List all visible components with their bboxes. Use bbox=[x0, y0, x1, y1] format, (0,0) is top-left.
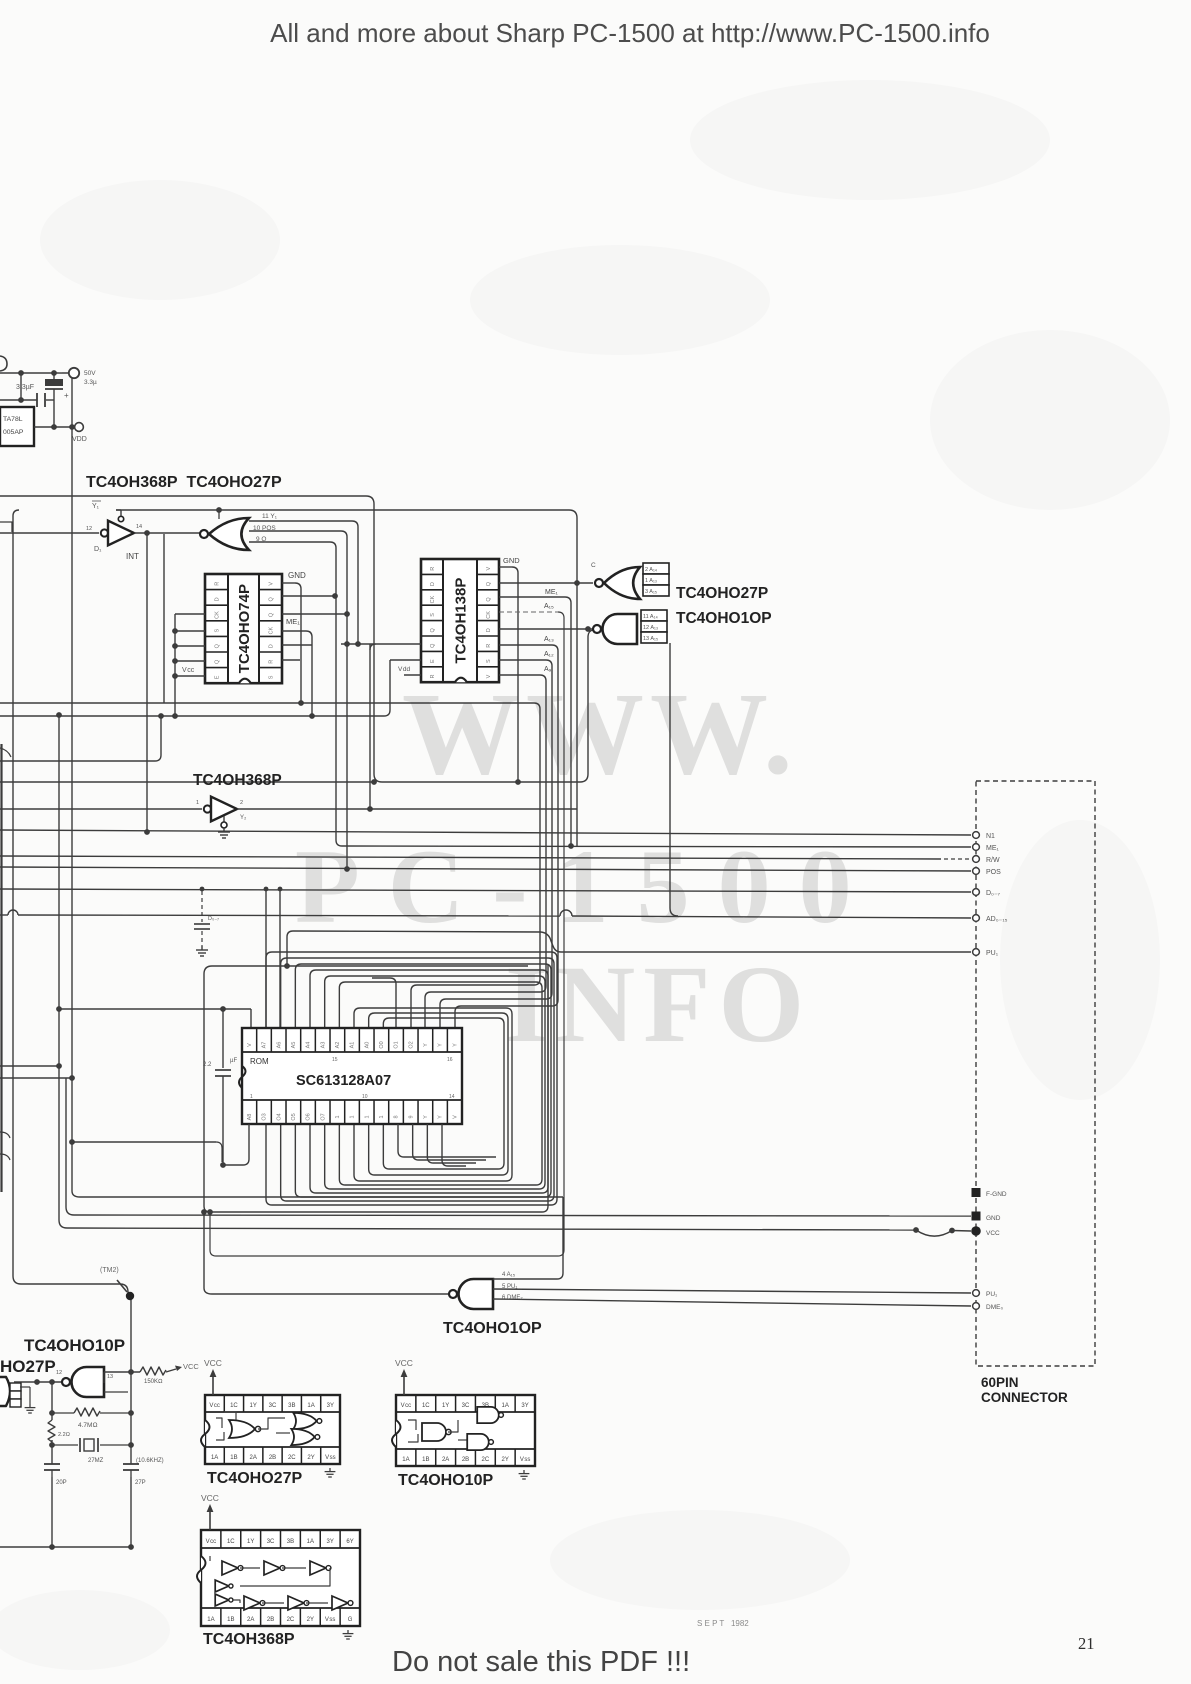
svg-text:2C: 2C bbox=[482, 1457, 490, 1463]
svg-text:−: − bbox=[58, 370, 62, 377]
svg-text:Q: Q bbox=[430, 643, 436, 648]
svg-text:R: R bbox=[215, 582, 221, 586]
bus line ME1 bbox=[342, 846, 971, 847]
wire net-510 bbox=[116, 509, 121, 511]
svg-text:5 PU₁: 5 PU₁ bbox=[502, 1284, 517, 1290]
wire NAND2 feed bbox=[201, 1209, 207, 1215]
resistor R3 2.2 bbox=[48, 1420, 55, 1442]
nand gate U11 TC4OHO10P osc bbox=[72, 1367, 105, 1397]
wire NOR1 out POS bbox=[249, 530, 341, 532]
wire U9 out DME bbox=[493, 1299, 971, 1306]
svg-text:All and more about Sharp PC-15: All and more about Sharp PC-1500 at http… bbox=[270, 18, 990, 48]
svg-text:S: S bbox=[486, 659, 492, 663]
wire U9 out PU1 bbox=[493, 1289, 971, 1293]
svg-text:TC4OH368P: TC4OH368P bbox=[203, 1631, 295, 1648]
svg-text:INT: INT bbox=[126, 552, 139, 561]
svg-text:A8: A8 bbox=[247, 1114, 253, 1121]
wire vertical x66 gnd feed bbox=[65, 1078, 67, 1207]
svg-text:A₁₃: A₁₃ bbox=[544, 636, 554, 643]
svg-text:16: 16 bbox=[447, 1057, 453, 1063]
bus line PU1 bbox=[287, 931, 293, 937]
wire U3 pin right4 bbox=[282, 630, 306, 632]
svg-text:GND: GND bbox=[288, 571, 306, 580]
svg-text:TC4OHO1OP: TC4OHO1OP bbox=[443, 1320, 542, 1337]
svg-text:4 A₁₅: 4 A₁₅ bbox=[502, 1272, 516, 1278]
capacitor C4 27pF bbox=[123, 1463, 139, 1465]
wire NOR1 out Y1 bbox=[249, 520, 352, 522]
ic U3 TC4OHO74P bbox=[205, 574, 282, 683]
pinout IC TC4OHO10P bbox=[396, 1395, 535, 1466]
svg-text:TC4OHO27P: TC4OHO27P bbox=[676, 585, 768, 602]
ground U7 bbox=[223, 816, 225, 822]
svg-text:2Y: 2Y bbox=[502, 1457, 509, 1463]
svg-text:12 A₁₃: 12 A₁₃ bbox=[643, 625, 658, 631]
svg-text:A3: A3 bbox=[320, 1042, 326, 1049]
svg-text:HO27P: HO27P bbox=[0, 1357, 56, 1376]
wire U4 left pin 675 bbox=[404, 674, 421, 676]
svg-text:8: 8 bbox=[394, 1115, 400, 1118]
svg-text:27P: 27P bbox=[135, 1480, 146, 1486]
wire ROM pin12 feed bbox=[411, 709, 540, 1028]
svg-text:D: D bbox=[215, 597, 221, 601]
svg-text:2A: 2A bbox=[442, 1457, 449, 1463]
svg-text:C: C bbox=[591, 562, 596, 569]
svg-text:O3: O3 bbox=[262, 1113, 268, 1120]
svg-text:Y: Y bbox=[438, 1115, 444, 1119]
svg-text:N1: N1 bbox=[986, 833, 995, 840]
svg-text:V: V bbox=[486, 567, 492, 571]
svg-text:11 A₁₄: 11 A₁₄ bbox=[643, 614, 658, 620]
svg-text:S: S bbox=[430, 613, 436, 617]
svg-text:D₀₋₇: D₀₋₇ bbox=[986, 890, 1001, 897]
connector J1 VCC bbox=[971, 1226, 981, 1236]
wire ROM outer band bbox=[204, 966, 528, 1206]
gate U5 input boxes bbox=[643, 563, 669, 596]
svg-text:TC4OHO10P: TC4OHO10P bbox=[398, 1472, 493, 1489]
svg-text:2Y: 2Y bbox=[307, 1455, 314, 1461]
wire U4 left pin 660 bbox=[390, 659, 421, 661]
svg-text:V cc: V cc bbox=[206, 1539, 217, 1545]
svg-text:1B: 1B bbox=[227, 1617, 234, 1623]
svg-text:TC4OHO27P: TC4OHO27P bbox=[207, 1470, 302, 1487]
terminal VDD bbox=[75, 423, 84, 432]
svg-text:005AP: 005AP bbox=[3, 429, 24, 436]
svg-text:50V: 50V bbox=[84, 370, 96, 377]
svg-text:A4: A4 bbox=[306, 1042, 312, 1049]
crystal X1 bbox=[52, 1444, 78, 1446]
svg-text:CK: CK bbox=[430, 595, 436, 603]
svg-text:3.3µ: 3.3µ bbox=[84, 379, 97, 386]
svg-text:2: 2 bbox=[240, 800, 243, 806]
svg-text:V cc: V cc bbox=[401, 1403, 412, 1409]
svg-text:CK: CK bbox=[269, 626, 275, 634]
svg-text:12: 12 bbox=[56, 1370, 62, 1376]
svg-text:VDD: VDD bbox=[72, 436, 87, 443]
svg-text:CONNECTOR: CONNECTOR bbox=[981, 1390, 1068, 1405]
capacitor C-in 3.3uF bbox=[36, 393, 38, 407]
wire vertical x59 bbox=[58, 715, 60, 1220]
svg-text:V: V bbox=[452, 1115, 458, 1119]
wire net-716 bbox=[0, 715, 384, 717]
svg-text:3Y: 3Y bbox=[327, 1403, 334, 1409]
wire net-1009 bbox=[59, 1008, 251, 1010]
bus line D0-7 bbox=[0, 889, 971, 892]
wire ROM pin2-3 risers bbox=[265, 889, 267, 1028]
svg-text:D₀₋₇: D₀₋₇ bbox=[208, 916, 219, 922]
nor gate U2 TC4OHO27P bbox=[209, 518, 249, 550]
connector J1 60PIN box bbox=[976, 781, 1095, 1366]
svg-text:1C: 1C bbox=[227, 1539, 235, 1545]
svg-text:14: 14 bbox=[449, 1094, 455, 1100]
svg-text:V: V bbox=[269, 582, 275, 586]
svg-text:D: D bbox=[430, 582, 436, 586]
svg-text:TA78L: TA78L bbox=[3, 416, 23, 423]
svg-text:2Y: 2Y bbox=[307, 1617, 314, 1623]
svg-text:A1: A1 bbox=[350, 1042, 356, 1049]
wire U4 A13 out bbox=[499, 644, 552, 646]
svg-text:3C: 3C bbox=[462, 1403, 470, 1409]
svg-text:A7: A7 bbox=[262, 1042, 268, 1049]
connector J1 DME term bbox=[973, 1303, 980, 1310]
wire U3 pin right3 bbox=[282, 613, 347, 615]
svg-text:PU₁: PU₁ bbox=[986, 1291, 998, 1298]
svg-text:1Y: 1Y bbox=[247, 1539, 254, 1545]
svg-text:2C: 2C bbox=[288, 1455, 296, 1461]
wire vertical x370 bbox=[369, 644, 371, 809]
svg-text:13 A₁₅: 13 A₁₅ bbox=[643, 636, 658, 642]
wire net-1147 bbox=[72, 1141, 216, 1143]
svg-text:A5: A5 bbox=[291, 1042, 297, 1049]
connector J1 signal terminals bbox=[973, 832, 980, 839]
wire left edge stubs bbox=[0, 1132, 10, 1138]
svg-text:Y: Y bbox=[423, 1115, 429, 1119]
svg-text:(TM2): (TM2) bbox=[100, 1267, 119, 1274]
svg-text:V ss: V ss bbox=[325, 1617, 336, 1623]
svg-text:V ss: V ss bbox=[325, 1455, 336, 1461]
resistor R2 4.7M bbox=[52, 1412, 74, 1414]
svg-text:21: 21 bbox=[1078, 1634, 1095, 1653]
svg-text:F-GND: F-GND bbox=[986, 1191, 1007, 1198]
svg-text:1: 1 bbox=[364, 1115, 370, 1118]
wire vertical x52 osc bbox=[51, 1382, 53, 1420]
wire vertical x72 from 30V terminal bbox=[71, 378, 73, 1191]
svg-text:A₁₅: A₁₅ bbox=[544, 603, 554, 610]
watermark www.PC-1500.info bbox=[295, 668, 880, 1065]
wire net-1197 bbox=[72, 1191, 80, 1197]
svg-text:D₁: D₁ bbox=[94, 546, 102, 553]
svg-text:Y₁: Y₁ bbox=[92, 503, 100, 510]
wire NOR1 out Q bbox=[249, 541, 330, 543]
svg-text:3Y: 3Y bbox=[327, 1539, 334, 1545]
svg-text:Y: Y bbox=[423, 1043, 429, 1047]
svg-text:TC4OHO1OP: TC4OHO1OP bbox=[676, 610, 772, 627]
wire inverter2 out bbox=[237, 808, 577, 810]
svg-text:10: 10 bbox=[362, 1094, 368, 1100]
svg-text:R: R bbox=[486, 644, 492, 648]
svg-text:µF: µF bbox=[230, 1058, 237, 1064]
wire U4 A15 out bbox=[499, 611, 558, 613]
pinout IC TC4OH368P bbox=[201, 1530, 360, 1626]
svg-text:15: 15 bbox=[332, 1057, 338, 1063]
wire cap rail bbox=[0, 399, 37, 401]
svg-text:9 Q: 9 Q bbox=[256, 536, 266, 543]
ic U8 ROM SC613128A07 bbox=[242, 1028, 462, 1124]
svg-text:O7: O7 bbox=[320, 1113, 326, 1120]
wire U3 left stubs bbox=[175, 613, 205, 615]
svg-text:13: 13 bbox=[107, 1374, 113, 1380]
wire NOR1 top input bbox=[218, 510, 220, 519]
svg-text:1Y: 1Y bbox=[250, 1403, 257, 1409]
svg-text:1: 1 bbox=[250, 1094, 253, 1100]
wire ROM bottom pin stubs bbox=[398, 1124, 496, 1157]
svg-text:R/W: R/W bbox=[986, 857, 1000, 864]
svg-text:2.2Ω: 2.2Ω bbox=[58, 1432, 70, 1438]
svg-text:S: S bbox=[215, 628, 221, 632]
wire U9 out A15 bbox=[493, 1278, 557, 1280]
svg-text:2 A₁₄: 2 A₁₄ bbox=[645, 567, 658, 573]
svg-text:1B: 1B bbox=[422, 1457, 429, 1463]
regulator U-reg TA78L05AP bbox=[0, 407, 34, 446]
wire vertical x13 bbox=[13, 510, 128, 1297]
svg-text:PU₁: PU₁ bbox=[986, 950, 999, 957]
nand gate U9 TC4OHO10P bbox=[459, 1279, 494, 1309]
wire U10 gnd branch bbox=[20, 1386, 30, 1388]
svg-text:POS: POS bbox=[986, 869, 1001, 876]
svg-text:Q: Q bbox=[430, 627, 436, 632]
wire page-edge cut box bbox=[0, 744, 2, 1192]
connector J1 GND bbox=[972, 1212, 981, 1221]
svg-text:ME₁: ME₁ bbox=[286, 617, 300, 626]
svg-text:12: 12 bbox=[86, 526, 92, 532]
wire net-1066 bbox=[0, 1065, 59, 1067]
svg-text:S: S bbox=[269, 675, 275, 679]
connector J1 PU1 term bbox=[973, 1290, 980, 1297]
wire U11 out bbox=[104, 1371, 140, 1373]
or gate U10 partial at page edge bbox=[0, 1377, 10, 1406]
svg-text:Q: Q bbox=[486, 597, 492, 602]
svg-text:2A: 2A bbox=[250, 1455, 257, 1461]
svg-text:D: D bbox=[269, 644, 275, 648]
svg-text:V dd: V dd bbox=[398, 666, 410, 673]
svg-text:CK: CK bbox=[486, 611, 492, 619]
svg-text:60PIN: 60PIN bbox=[981, 1375, 1019, 1390]
svg-text:TC4OH368P: TC4OH368P bbox=[193, 772, 282, 789]
svg-text:ME₁: ME₁ bbox=[986, 845, 1000, 852]
wire U3 pin right6 bbox=[282, 659, 300, 661]
ic U4 TC4OH138P bbox=[421, 559, 499, 682]
svg-text:2B: 2B bbox=[267, 1617, 274, 1623]
svg-text:Q: Q bbox=[269, 612, 275, 617]
svg-text:1A: 1A bbox=[207, 1617, 214, 1623]
svg-text:A₁₂: A₁₂ bbox=[544, 651, 554, 658]
svg-text:2C: 2C bbox=[287, 1617, 295, 1623]
svg-text:TC4OH368P TC4OHO27P: TC4OH368P TC4OHO27P bbox=[86, 474, 282, 491]
gate U6 input boxes bbox=[641, 610, 667, 643]
capacitor C-el electrolytic bbox=[53, 373, 55, 379]
svg-text:SC613128A07: SC613128A07 bbox=[296, 1073, 391, 1089]
svg-text:V ss: V ss bbox=[520, 1457, 531, 1463]
wire net-703 bbox=[0, 702, 534, 704]
svg-text:GND: GND bbox=[503, 556, 520, 565]
wire net-761 bbox=[0, 760, 155, 762]
svg-text:V: V bbox=[247, 1043, 253, 1047]
svg-text:1A: 1A bbox=[502, 1403, 509, 1409]
bus line AD0-15 bbox=[8, 910, 18, 915]
svg-text:V cc: V cc bbox=[209, 1403, 220, 1409]
svg-text:V cc: V cc bbox=[182, 667, 195, 674]
connector J1 F-GND bbox=[972, 1188, 981, 1197]
svg-text:VCC: VCC bbox=[986, 1230, 1000, 1237]
wire cap join bbox=[20, 373, 22, 400]
svg-text:(10.6KHZ): (10.6KHZ) bbox=[136, 1458, 164, 1464]
svg-text:O1: O1 bbox=[394, 1041, 400, 1048]
svg-text:A2: A2 bbox=[335, 1042, 341, 1049]
pinout IC TC4OHO27P bbox=[205, 1395, 340, 1464]
svg-text:VCC: VCC bbox=[183, 1362, 199, 1371]
svg-text:1: 1 bbox=[350, 1115, 356, 1118]
svg-text:S E P T 1982: S E P T 1982 bbox=[697, 1619, 749, 1628]
svg-text:Do not sale this PDF !!!: Do not sale this PDF !!! bbox=[392, 1646, 690, 1678]
svg-text:O4: O4 bbox=[276, 1113, 282, 1120]
svg-text:1: 1 bbox=[335, 1115, 341, 1118]
svg-text:R: R bbox=[430, 674, 436, 678]
svg-text:3 A₁₅: 3 A₁₅ bbox=[645, 589, 657, 595]
wire reg to VDD bbox=[34, 426, 74, 428]
wire vertical x131 osc bbox=[130, 1297, 132, 1464]
svg-text:6Y: 6Y bbox=[346, 1539, 353, 1545]
inverter U7 TC4OH368P bbox=[204, 805, 211, 812]
nand gate U6 TC4OHO10P bbox=[603, 614, 638, 644]
svg-text:Q: Q bbox=[215, 659, 221, 664]
wire U4 pin to NOR2 bbox=[499, 582, 593, 584]
wire U4 A9 out bbox=[499, 674, 540, 676]
wire ROM pin1 riser bbox=[250, 1009, 252, 1028]
wire U4 gnd pin bbox=[499, 566, 512, 568]
wire net-496 bbox=[0, 496, 593, 782]
svg-text:1A: 1A bbox=[402, 1457, 409, 1463]
wire U3 gnd pin bbox=[282, 582, 295, 584]
svg-text:1A: 1A bbox=[211, 1455, 218, 1461]
wire inverter out to NOR bbox=[134, 532, 200, 534]
svg-text:CK: CK bbox=[215, 611, 221, 619]
svg-text:TC4OH138P: TC4OH138P bbox=[453, 578, 470, 664]
svg-text:E: E bbox=[430, 659, 436, 663]
svg-text:Y: Y bbox=[438, 1043, 444, 1047]
wire inverter2 input bbox=[0, 808, 202, 810]
svg-text:VCC: VCC bbox=[395, 1358, 413, 1368]
svg-text:1: 1 bbox=[379, 1115, 385, 1118]
svg-text:Q: Q bbox=[486, 581, 492, 586]
svg-text:VCC: VCC bbox=[201, 1493, 219, 1503]
svg-text:DME₀: DME₀ bbox=[986, 1304, 1003, 1311]
svg-text:A₉: A₉ bbox=[544, 666, 552, 673]
wire U4 A12 out bbox=[499, 659, 546, 661]
svg-text:WWW.: WWW. bbox=[402, 668, 799, 799]
wire ROM racetrack loops bbox=[266, 952, 557, 1205]
svg-text:A0: A0 bbox=[364, 1042, 370, 1049]
wire vertical x147 bbox=[146, 533, 148, 832]
svg-text:3B: 3B bbox=[288, 1403, 295, 1409]
svg-text:Q: Q bbox=[269, 597, 275, 602]
svg-text:VCC: VCC bbox=[204, 1358, 222, 1368]
svg-text:1B: 1B bbox=[230, 1455, 237, 1461]
svg-text:11 Y₁: 11 Y₁ bbox=[262, 513, 278, 520]
wire U3 pin right5 bbox=[282, 644, 312, 646]
svg-text:14: 14 bbox=[136, 524, 142, 530]
bus line R/W bbox=[0, 856, 941, 859]
bus line POS bbox=[0, 867, 971, 871]
wire U6 boxes down bbox=[669, 643, 671, 908]
wire U4 pin to NAND1 bbox=[499, 628, 597, 630]
svg-text:R: R bbox=[430, 567, 436, 571]
svg-text:2A: 2A bbox=[247, 1617, 254, 1623]
svg-text:1: 1 bbox=[196, 800, 199, 806]
svg-text:3B: 3B bbox=[287, 1539, 294, 1545]
bus line N1 bbox=[0, 830, 971, 835]
svg-text:9: 9 bbox=[408, 1115, 414, 1118]
svg-text:3.3µF: 3.3µF bbox=[16, 384, 34, 391]
svg-text:10 POS: 10 POS bbox=[253, 525, 276, 532]
svg-text:ROM: ROM bbox=[250, 1057, 269, 1066]
capacitor C-rom bbox=[222, 1009, 224, 1068]
resistor R1 150K bbox=[140, 1367, 166, 1375]
inverter U1 TC4OH368P D1 bbox=[101, 529, 108, 536]
svg-text:ME₁: ME₁ bbox=[545, 589, 559, 596]
svg-text:O6: O6 bbox=[306, 1113, 312, 1120]
svg-text:AD₀₋₁₅: AD₀₋₁₅ bbox=[986, 916, 1008, 923]
svg-text:2B: 2B bbox=[269, 1455, 276, 1461]
wire U4 ME1 out bbox=[499, 596, 565, 598]
svg-text:GND: GND bbox=[986, 1215, 1001, 1222]
svg-text:+: + bbox=[64, 391, 69, 400]
svg-text:150KΩ: 150KΩ bbox=[144, 1379, 163, 1385]
svg-text:A6: A6 bbox=[276, 1042, 282, 1049]
wire net-1078 bbox=[0, 1077, 72, 1079]
bus line VCC bbox=[67, 1228, 916, 1230]
svg-text:E: E bbox=[215, 675, 221, 679]
capacitor C3 20pF bbox=[44, 1463, 60, 1465]
wire 30V rail bbox=[0, 372, 68, 374]
nor gate U5 TC4OHO27P bbox=[604, 567, 640, 599]
svg-text:27MZ: 27MZ bbox=[88, 1458, 104, 1464]
svg-text:3C: 3C bbox=[269, 1403, 277, 1409]
svg-text:Y: Y bbox=[452, 1043, 458, 1047]
capacitor C-bus dashed bbox=[201, 891, 203, 922]
svg-text:1A: 1A bbox=[307, 1539, 314, 1545]
wire net-1165 to ROM bbox=[223, 1164, 243, 1166]
svg-text:G: G bbox=[348, 1617, 353, 1623]
terminal 30V bbox=[69, 368, 79, 378]
svg-text:O2: O2 bbox=[408, 1041, 414, 1048]
wire ROM pin11 stub bbox=[372, 978, 396, 1028]
svg-text:D: D bbox=[486, 628, 492, 632]
svg-text:V: V bbox=[486, 674, 492, 678]
svg-text:O5: O5 bbox=[291, 1113, 297, 1120]
wire U4 left pin 644 bbox=[341, 643, 421, 645]
svg-text:6 DME₂: 6 DME₂ bbox=[502, 1295, 523, 1301]
svg-text:Y₂: Y₂ bbox=[240, 815, 247, 821]
svg-text:3C: 3C bbox=[267, 1539, 275, 1545]
wire U3 pin right2 bbox=[282, 595, 335, 597]
wire osc bottom rail bbox=[0, 1546, 131, 1548]
svg-text:Q: Q bbox=[215, 643, 221, 648]
svg-text:O0: O0 bbox=[379, 1041, 385, 1048]
wire inverter D1 input bbox=[0, 532, 99, 534]
svg-text:TC4OHO74P: TC4OHO74P bbox=[236, 584, 253, 673]
svg-text:R: R bbox=[269, 660, 275, 664]
bus line GND bbox=[74, 1215, 971, 1216]
svg-text:1C: 1C bbox=[422, 1403, 430, 1409]
